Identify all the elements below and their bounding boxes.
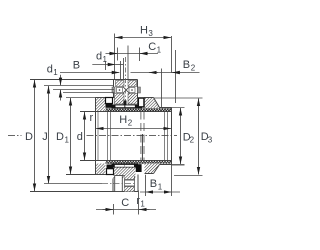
svg-text:D: D [25,131,33,143]
svg-text:B: B [73,60,80,72]
svg-text:3: 3 [148,29,153,38]
svg-text:H: H [140,24,148,36]
svg-text:1: 1 [158,182,163,191]
svg-text:H: H [119,114,127,126]
svg-text:1: 1 [103,55,108,64]
svg-text:d: d [47,64,53,76]
svg-text:C: C [148,41,156,53]
svg-text:B: B [183,59,190,71]
svg-text:1: 1 [140,199,145,208]
svg-text:d: d [77,131,83,143]
svg-text:1: 1 [53,68,58,77]
svg-text:B: B [150,178,157,190]
svg-text:1: 1 [157,46,162,55]
svg-text:3: 3 [208,135,213,144]
svg-text:2: 2 [190,136,195,145]
svg-text:D: D [56,131,64,143]
svg-text:2: 2 [191,64,196,73]
svg-text:r: r [90,112,94,124]
svg-text:2: 2 [128,119,133,128]
svg-text:J: J [42,131,48,143]
svg-text:C: C [121,197,129,209]
svg-text:1: 1 [65,135,70,144]
svg-text:d: d [96,50,102,62]
